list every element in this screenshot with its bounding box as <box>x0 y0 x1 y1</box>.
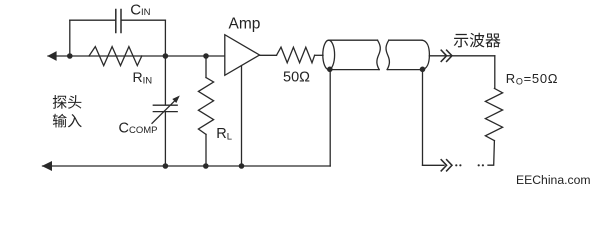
svg-text:50Ω: 50Ω <box>283 70 310 86</box>
node C (junction dot, RL tap) <box>203 53 209 59</box>
wire: Ccomp lower lead to bottom rail <box>164 112 166 166</box>
wire: Ro bottom lead <box>488 141 494 166</box>
coax cable right segment <box>386 40 389 69</box>
node A (junction dot left, top rail) <box>67 53 73 59</box>
svg-text:CCOMP: CCOMP <box>119 120 158 136</box>
node F (Ccomp on bottom rail) <box>163 163 169 169</box>
chevron arrow to scope ground <box>441 160 452 171</box>
node G (RL on bottom rail) <box>203 163 209 169</box>
label oscilloscope <box>454 33 501 48</box>
label probe input <box>53 95 82 109</box>
wire: scope corner down to Ro <box>494 56 496 89</box>
ground return arrow (bottom left, pointing left) <box>42 161 52 171</box>
wire: RL lower lead to bottom rail <box>205 134 207 166</box>
capacitor CCOMP (variable) <box>153 104 177 106</box>
capacitor CIN <box>116 10 121 33</box>
wire: bottom rail <box>43 165 331 167</box>
op-amp Amp <box>225 35 260 76</box>
svg-text:RIN: RIN <box>133 69 153 87</box>
svg-text:RL: RL <box>216 126 232 143</box>
node H (amp ground on bottom rail) <box>239 163 245 169</box>
wire: RL upper lead <box>205 56 207 78</box>
svg-text:RO=50Ω: RO=50Ω <box>506 71 558 87</box>
node D (cable left shield dot) <box>327 67 333 73</box>
wire: left riser up to Cin branch <box>69 20 71 56</box>
wire: amp ground leg <box>241 66 243 166</box>
resistor RIN <box>89 47 142 66</box>
wire: right shield to scope ground <box>423 164 445 166</box>
node E (cable right shield dot) <box>420 67 426 73</box>
resistor 50ohm <box>277 47 315 63</box>
coax cable left segment <box>323 40 335 69</box>
wire: Ccomp riser from top rail <box>164 56 166 105</box>
chevrons to oscilloscope <box>441 50 452 61</box>
svg-text:Amp: Amp <box>229 15 261 32</box>
wire: Cin branch right lead <box>122 19 166 21</box>
node B (junction dot, Cin/Rin/Ccomp) <box>163 53 169 59</box>
wire: top rail from input arrow to amp input <box>48 55 225 57</box>
wire: bottom rail riser to cable left shield <box>329 69 331 166</box>
wire: right shield drop <box>422 69 424 165</box>
wire: Cin branch right riser down to top rail <box>164 20 166 56</box>
wire: cable output to scope corner <box>429 55 494 57</box>
svg-text:CIN: CIN <box>130 2 150 19</box>
resistor RO <box>485 88 502 140</box>
wire: 50ohm to cable <box>315 54 323 56</box>
input arrow (top left, pointing left) <box>47 51 56 61</box>
wire: Cin branch left lead <box>70 19 115 21</box>
resistor RL <box>198 78 213 135</box>
dotted continuation <box>455 164 484 166</box>
wire: amp output <box>260 54 277 56</box>
svg-text:EEChina.com: EEChina.com <box>516 173 591 187</box>
